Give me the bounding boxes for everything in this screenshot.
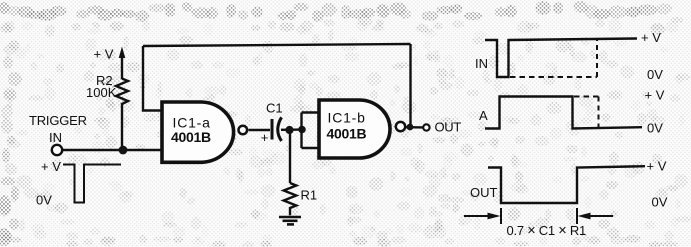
waveform A dashed trailing edge xyxy=(598,97,600,129)
wire C1 to node A xyxy=(281,128,302,131)
waveform IN dashed trailing edge xyxy=(596,40,598,77)
wire feedback top rail xyxy=(143,44,411,46)
dimension tick left xyxy=(500,208,502,224)
wire gate2 output to OUT xyxy=(406,126,423,129)
svg-text:IN: IN xyxy=(49,130,62,145)
svg-text:+ V: + V xyxy=(94,47,114,62)
waveform IN dashed 0V level xyxy=(510,76,597,78)
svg-text:0V: 0V xyxy=(647,121,663,136)
svg-text:TRIGGER: TRIGGER xyxy=(29,113,87,128)
svg-text:OUT: OUT xyxy=(470,185,498,200)
svg-text:+ V: + V xyxy=(647,159,667,174)
ground xyxy=(279,217,301,224)
gate IC1-b (NOR, drawn NAND-style) xyxy=(319,100,390,158)
dimension arrow right xyxy=(578,213,614,220)
wire feedback right vertical xyxy=(409,44,411,126)
terminal OUT xyxy=(423,124,429,130)
svg-text:0V: 0V xyxy=(36,193,52,208)
wire gate1 output to C1 xyxy=(249,129,271,131)
output bubble IC1-a xyxy=(239,126,248,135)
output bubble IC1-b xyxy=(396,122,405,131)
node trigger junction (R2 / trigger) xyxy=(119,146,128,155)
node output junction (feedback tap) xyxy=(407,124,414,131)
svg-text:+ V: + V xyxy=(41,159,61,174)
wire node A to R1 xyxy=(289,130,291,183)
svg-text:0.7 × C1 × R1: 0.7 × C1 × R1 xyxy=(507,223,586,239)
svg-text:0V: 0V xyxy=(647,67,663,82)
waveform A solid trace xyxy=(485,97,642,129)
wire trigger input to gate IC1-a lower input xyxy=(63,149,161,151)
svg-text:C1: C1 xyxy=(266,101,283,116)
gate IC1-a (NOR, drawn NAND-style) xyxy=(162,102,234,162)
wire IC1-b input bracket xyxy=(300,113,302,149)
svg-text:IN: IN xyxy=(475,56,488,71)
svg-text:+ V: + V xyxy=(645,88,665,103)
wire feedback left vertical xyxy=(143,46,161,111)
svg-text:IC1-b: IC1-b xyxy=(328,110,366,126)
dimension tick right xyxy=(576,208,578,224)
svg-text:4001B: 4001B xyxy=(327,126,367,142)
power +V arrow (top of R2) xyxy=(119,47,126,80)
resistor R1 xyxy=(284,183,297,215)
capacitor C1 xyxy=(272,117,282,141)
waveform A dashed +V extension xyxy=(574,96,599,98)
trigger pulse waveform (schematic, lower left) xyxy=(63,165,121,203)
svg-text:100K: 100K xyxy=(86,85,117,100)
svg-text:+: + xyxy=(261,130,269,145)
svg-text:OUT: OUT xyxy=(435,119,462,134)
node junction at IC1-b input bracket xyxy=(298,126,306,134)
dimension arrow left xyxy=(464,213,501,220)
svg-text:0V: 0V xyxy=(652,195,668,210)
node A (junction C1 / R1) xyxy=(285,126,293,134)
waveform OUT solid trace xyxy=(488,166,645,203)
svg-text:R1: R1 xyxy=(301,188,318,203)
resistor R2 xyxy=(116,79,128,147)
svg-text:4001B: 4001B xyxy=(171,129,211,145)
waveform IN solid trace xyxy=(485,39,637,78)
svg-text:A: A xyxy=(479,108,488,123)
svg-text:+ V: + V xyxy=(641,30,661,45)
terminal TRIGGER IN xyxy=(52,145,62,155)
